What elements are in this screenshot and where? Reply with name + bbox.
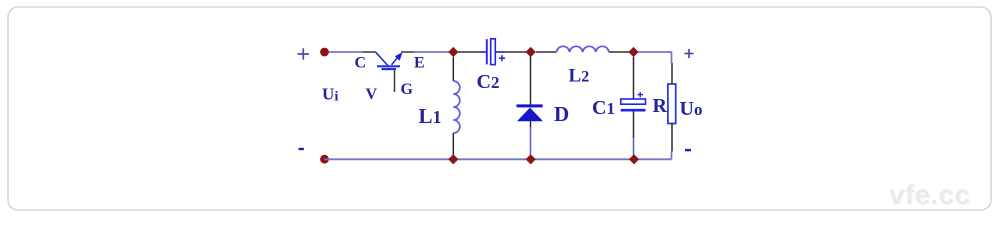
node junction bottom of L1 — [448, 154, 458, 164]
watermark vfe.cc — [889, 179, 971, 211]
resistor R — [668, 63, 676, 159]
svg-text:vfe.cc: vfe.cc — [889, 179, 970, 210]
transistor V (IGBT) — [375, 52, 402, 92]
terminal node + (top left) — [320, 48, 329, 57]
label + (input positive) — [298, 48, 310, 59]
svg-text:C2: C2 — [477, 71, 500, 93]
bottom rail wire — [325, 158, 672, 160]
svg-text:L2: L2 — [569, 65, 590, 86]
svg-text:U: U — [322, 84, 334, 103]
svg-text:C: C — [355, 55, 367, 72]
node junction top of C1 — [628, 47, 638, 57]
capacitor C2 — [480, 39, 505, 65]
node junction bottom of D — [526, 154, 536, 164]
wire from L2 to C1 node — [609, 51, 630, 53]
wire from emitter to L1 node — [401, 51, 414, 53]
node junction top of diode D — [526, 47, 536, 57]
svg-text:i: i — [335, 90, 339, 105]
inductor L1 — [453, 57, 460, 155]
svg-text:R: R — [653, 95, 668, 117]
wire from L1 node to C2 — [458, 51, 480, 53]
svg-text:D: D — [554, 102, 569, 126]
terminal node - (bottom left) — [320, 155, 329, 164]
inductor L2 — [557, 46, 609, 52]
svg-text:L1: L1 — [419, 104, 442, 128]
diode D — [517, 56, 544, 156]
svg-text:V: V — [366, 86, 378, 103]
capacitor C1 — [621, 57, 646, 156]
svg-text:G: G — [401, 81, 414, 98]
wire from C1 node to R branch — [638, 51, 672, 53]
svg-text:E: E — [414, 55, 425, 72]
node junction bottom of C1 — [629, 154, 639, 164]
label + (output positive) — [685, 49, 694, 58]
label - (input negative) — [299, 148, 304, 150]
node junction top of L1 — [448, 47, 458, 57]
wire from C2 to diode node — [504, 51, 528, 53]
wire from diode node to L2 — [536, 51, 557, 53]
wire from + terminal to transistor collector — [329, 51, 364, 53]
svg-text:C1: C1 — [592, 97, 615, 119]
svg-text:Uo: Uo — [680, 98, 703, 120]
label - (output negative) — [685, 149, 691, 151]
